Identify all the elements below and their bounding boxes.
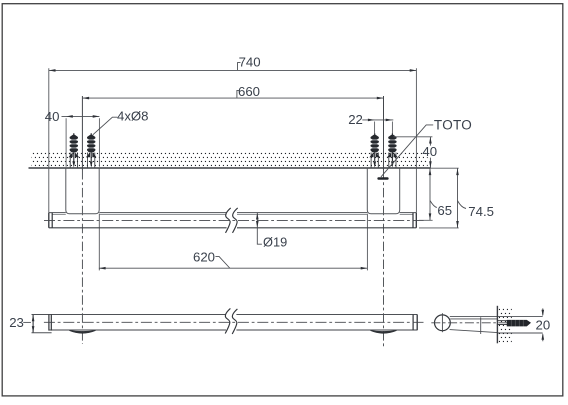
bar right end cap (top view) [412,213,414,228]
bracket arm top line / 20 top extension [450,316,543,318]
dimension 740 extension line left [48,68,50,212]
dimension 40 right extension line (top) [394,136,433,138]
dimension 74.5 text hook [458,201,467,209]
svg-text:65: 65 [437,203,452,218]
svg-text:620: 620 [193,249,215,264]
break squiggle 2 (top view) [233,208,238,233]
break squiggle 1 (top view) [226,208,231,233]
extension line at bar centerline (right) [419,219,433,221]
dimension O19 line [257,213,262,244]
620 left extension line (through bar) [98,214,100,271]
left post escutcheon (top view) [66,168,99,214]
dimension 22 line [362,119,393,121]
dimension 660 line [82,97,383,99]
svg-text:20: 20 [536,317,551,332]
anchor screw 4 [387,133,398,167]
20 bottom extension line [497,332,542,334]
side view right cap lines [412,315,414,331]
side view cap bottom extension [32,332,52,334]
svg-text:740: 740 [239,54,261,69]
dimension 23 line (bar end face) [32,315,34,333]
dimension 40 left line [62,115,100,117]
dimension 740 extension line right [415,68,417,212]
side view break squiggle 1 [225,308,230,333]
screw shank lines [498,321,509,325]
dimension 740 line [49,69,417,71]
dimension 65 arrows [429,168,432,220]
right post escutcheon (top view) [367,168,399,214]
left post centerline (vertical) [81,96,83,170]
flange edge vertical [480,317,482,334]
bar cross-section circle [435,315,451,331]
anchor screw 2 [86,133,97,167]
bracket arm second top line [450,318,497,320]
dimension 40 right line [429,137,431,168]
dimension 22 extension lines [375,122,393,134]
right post centerline (vertical) [383,96,385,170]
dimension 660 text hook [237,90,240,97]
side view left cap lines [48,315,50,331]
svg-text:23: 23 [9,315,24,330]
dimension O19 arrows [256,213,259,228]
svg-text:40: 40 [45,109,60,124]
side view bar top edge [32,314,418,316]
dimension 65 text hook [430,201,437,208]
svg-text:Ø19: Ø19 [263,234,287,249]
dimension 620 line [99,267,368,269]
wall surface line (section view) [496,306,498,344]
side view horizontal centerline [44,321,424,323]
dimension 22 arrows [368,119,393,122]
anchor ridges (white notches) [511,320,523,327]
bar cylinder highlight line (top view) [52,214,413,216]
section horizontal centerline [431,322,510,324]
right escutcheon flange (side view crescent) [371,331,397,334]
circle vertical centerline [441,313,443,332]
dimension 740 text hook [238,63,241,70]
bar horizontal centerline (top view) [44,219,424,221]
side view bar bottom edge [49,329,418,331]
svg-text:22: 22 [348,112,363,127]
wall anchor body (section view) [507,320,531,327]
wall stipple (section view) [499,307,512,344]
label TOTO leader [381,125,433,177]
label 4xO8 leader [93,117,118,135]
wall surface line (top view) [29,167,431,169]
svg-text:660: 660 [238,84,260,99]
svg-text:4xØ8: 4xØ8 [117,108,149,123]
dimension 660 arrows [82,97,383,100]
bracket arm bottom sloped line [450,330,498,333]
dimension 40 left extension lines [66,118,99,167]
dimension 23 arrows [32,315,35,333]
wall stipple (top view) [32,153,428,167]
dimension 23 dash [23,321,31,323]
bar top edge (top view) [49,212,417,214]
dimension 620 text hook [215,256,229,268]
svg-text:40: 40 [422,144,437,159]
bar bottom edge (top view) [49,227,417,229]
dimension 74.5 arrows [456,168,459,227]
dimension 40 right arrows [429,137,432,168]
wall line extension (right of wall) [431,167,459,169]
bar left end cap (top view) [48,213,50,228]
dimension 740 arrows [49,69,417,72]
620 right extension line (through bar) [366,214,368,271]
dimension 65 line [429,168,431,220]
dimension 620 arrows [99,267,368,270]
svg-text:74.5: 74.5 [468,204,494,219]
dimension 40 left arrows [66,115,99,118]
svg-text:TOTO: TOTO [434,118,472,133]
extension line at bar bottom (right) [419,227,459,229]
dimension 20 arrows [542,308,544,341]
side view break squiggle 2 [232,309,237,334]
anchor screw 1 [69,133,80,167]
dimension 74.5 line [457,168,459,227]
left escutcheon flange (side view crescent) [69,331,95,334]
anchor screw 3 [369,133,380,167]
TOTO logo mark on bar [377,177,388,179]
